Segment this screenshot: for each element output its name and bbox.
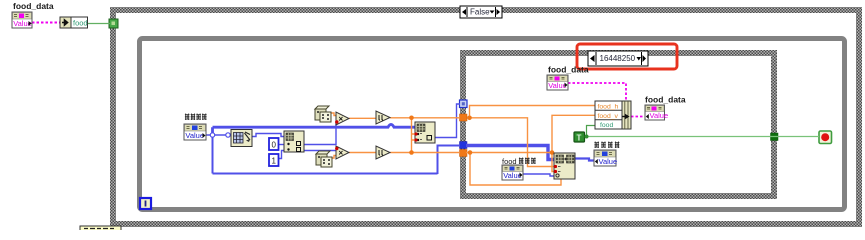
property node food_data write (right): [645, 105, 668, 120]
svg-text:food: food: [600, 122, 613, 129]
wire: green from local variable to outer tunnel: [87, 23, 110, 25]
wire: T2 into inner case, to bundle food_h and draw node: [467, 106, 595, 167]
wire: multiply1 to round1: [349, 117, 376, 119]
tunnel T4 orange on inner left border: [460, 150, 468, 157]
constant 1: [269, 154, 279, 166]
svg-text:food: food: [73, 19, 88, 28]
index array node: [284, 131, 304, 152]
loop conditional terminal (stop): [819, 131, 832, 144]
constant 0: [269, 138, 279, 150]
svg-text:Value: Value: [548, 81, 567, 90]
coercion dots replace node: [414, 132, 417, 135]
label game interface (left): [185, 114, 207, 121]
wire: riser to inner tunnel: [438, 146, 461, 175]
wire: picture inside inner case to draw node: [466, 146, 554, 160]
label game interface (inner): [594, 142, 619, 149]
coercion dot multiply1: [335, 120, 338, 123]
wire: bundle output to food_data write: [631, 116, 645, 118]
green tunnel on outer left border: [109, 19, 118, 28]
wire: round2 to tunnel T4 and replace node: [390, 140, 460, 153]
round toward -inf 2: [376, 146, 390, 159]
svg-text:1: 1: [272, 157, 277, 166]
property node game interface write (inner): [594, 150, 617, 166]
image size node: [231, 130, 252, 147]
wire: size node to index array: [252, 134, 284, 137]
wire: magenta dashed from food_data to local variable: [32, 22, 60, 24]
outer case selector label "False": [460, 6, 502, 18]
svg-text:16448250: 16448250: [600, 54, 636, 63]
wire: T4 into inner case, to bundle food_v and draw node: [466, 115, 595, 185]
property node food color read: [502, 165, 523, 180]
inner case structure border (16448250 case): [460, 50, 777, 199]
round toward -inf 1: [376, 111, 390, 124]
wire: round1 to tunnel T2 and replace node: [390, 118, 460, 153]
svg-text:Value: Value: [185, 131, 204, 140]
random number dice 1: [315, 106, 331, 122]
draw rectangle node: [554, 153, 575, 179]
junction circles on picture wire: [210, 133, 214, 137]
random number dice 2: [316, 151, 332, 167]
red annotation rectangle: [577, 44, 677, 69]
multiply 1: [336, 112, 349, 125]
svg-text:food_v: food_v: [598, 113, 619, 120]
multiply 2: [336, 146, 349, 159]
svg-text:Value: Value: [650, 111, 669, 120]
wire: picture wire down from game interface value: [212, 135, 214, 174]
property node food_data read (inner): [547, 75, 568, 90]
wire: thick picture branch top horizontal: [213, 124, 416, 135]
wire: constant 0 to index array: [278, 144, 284, 146]
wire: constant 1 to index array: [278, 151, 284, 159]
property node game interface read (left): [184, 124, 206, 140]
coercion dots draw node: [554, 165, 557, 168]
svg-text:False: False: [470, 8, 490, 17]
wire: replace node output to tunnel T1: [435, 104, 460, 138]
tunnel T1 blue hollow on inner left border: [460, 100, 468, 108]
svg-text:food_data: food_data: [645, 95, 686, 105]
wire: food color value to draw node: [523, 174, 554, 176]
svg-text:T: T: [577, 134, 582, 143]
wire: dice2 to multiply2: [331, 156, 337, 159]
boolean true constant: [574, 132, 585, 143]
svg-text:food_data: food_data: [548, 65, 589, 75]
inner case selector label "16448250": [588, 51, 648, 66]
wire: draw node output to game interface write: [575, 159, 594, 161]
wire: multiply2 to round2: [349, 152, 376, 154]
svg-text:food_h: food_h: [598, 104, 619, 111]
wire: index out1 to multiply 2: [304, 150, 337, 152]
iteration terminal i: [140, 198, 151, 209]
replace array subset node: [415, 122, 435, 143]
wire: dice1 to multiply1: [331, 113, 337, 116]
wire: magenta dashed property to bundle middle input: [568, 83, 626, 101]
coercion dot multiply2: [335, 147, 338, 150]
tunnel T3 blue solid on inner left border: [460, 142, 468, 149]
svg-text:food_data: food_data: [13, 1, 54, 11]
svg-text:0: 0: [272, 141, 277, 150]
property node food_data read (top left): [12, 12, 32, 28]
svg-text:Value: Value: [503, 171, 522, 180]
local variable food: [60, 17, 88, 28]
wire: index out0 to multiply 1: [304, 122, 338, 145]
bundle by name node: [595, 101, 631, 129]
wire: game interface value to size node: [206, 134, 231, 136]
tunnel green on inner right border: [771, 133, 779, 141]
while loop frame: [140, 39, 845, 210]
wire: bottom bus horizontal: [213, 173, 438, 175]
tunnel T2 orange on inner left border: [460, 114, 468, 121]
outer case structure border (False case): [110, 7, 862, 227]
wire: boolean to bundle food element and loop stop: [587, 126, 596, 137]
clipped free label at bottom: [80, 226, 121, 232]
orange junction dots: [409, 116, 414, 121]
svg-text:Value: Value: [599, 157, 618, 166]
label food color: [502, 157, 536, 166]
